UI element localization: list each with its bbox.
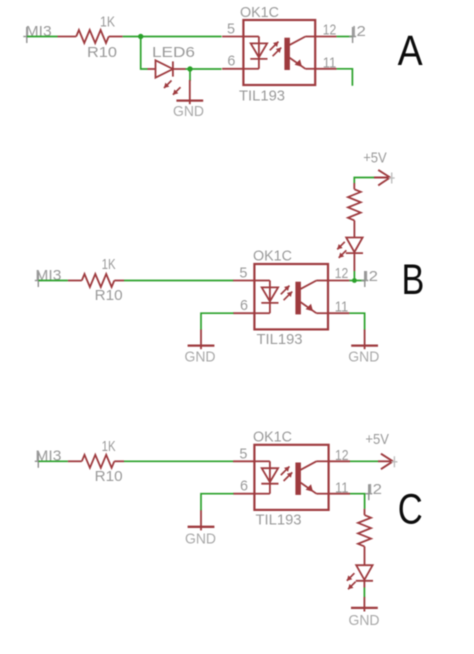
section B: OK1C pin 6 lead bbox=[233, 312, 254, 314]
svg-text:5: 5 bbox=[239, 445, 247, 462]
svg-text:OK1C: OK1C bbox=[240, 4, 279, 21]
section A: OK1C phototransistor bbox=[284, 37, 315, 71]
svg-text:12: 12 bbox=[335, 265, 349, 282]
section C: optocoupler OK1C box bbox=[254, 445, 328, 510]
section B: OK1C internal LED bbox=[254, 281, 278, 314]
section B: OK1C phototransistor bbox=[295, 281, 328, 315]
section A: wire LED6 to pin 6 bbox=[186, 68, 222, 70]
section A: wire R10 to pin 5 bbox=[123, 36, 222, 38]
section B: optocoupler OK1C box bbox=[254, 264, 328, 329]
section A: OK1C pin 6 lead bbox=[222, 68, 243, 70]
svg-text:OK1C: OK1C bbox=[253, 428, 292, 445]
svg-text:5: 5 bbox=[239, 265, 247, 282]
svg-text:LED6: LED6 bbox=[152, 44, 195, 61]
svg-text:11: 11 bbox=[323, 54, 337, 71]
svg-text:6: 6 bbox=[240, 477, 248, 494]
svg-text:1K: 1K bbox=[100, 13, 115, 30]
svg-text:1K: 1K bbox=[102, 256, 116, 273]
svg-text:12: 12 bbox=[335, 447, 349, 464]
svg-text:11: 11 bbox=[335, 298, 349, 315]
section B: LED (pullup) bbox=[346, 238, 363, 254]
section A: net label MI3 bbox=[23, 23, 51, 43]
section C: OK1C pin 11 lead bbox=[329, 493, 350, 495]
section B: OK1C pin 12 lead bbox=[328, 280, 349, 282]
svg-text:GND: GND bbox=[349, 612, 380, 629]
section C: OK1C pin 12 lead bbox=[329, 460, 350, 462]
svg-text:I2: I2 bbox=[368, 481, 382, 498]
svg-text:6: 6 bbox=[227, 53, 235, 70]
section B: wire LED to node I2 bbox=[353, 253, 355, 280]
section C: ground GND (left) bbox=[188, 510, 215, 530]
section C: OK1C internal LED bbox=[254, 461, 278, 493]
section A: wire pin 12 to I2 bbox=[337, 36, 353, 38]
section B: OK1C pin 5 lead bbox=[233, 280, 254, 282]
section C: supply +5V arrow bbox=[378, 454, 397, 470]
section B: wire R10 to pin 5 bbox=[124, 280, 234, 282]
section C: OK1C phototransistor bbox=[295, 461, 328, 495]
section A: junction at LED6 cathode bbox=[187, 66, 192, 71]
svg-text:GND: GND bbox=[173, 103, 204, 120]
section C: OK1C pin 5 lead bbox=[233, 460, 254, 462]
section A: ground GND bbox=[176, 80, 203, 104]
section C: OK1C pin 6 lead bbox=[233, 493, 254, 495]
svg-text:TIL193: TIL193 bbox=[239, 88, 285, 105]
section A: OK1C pin 5 lead bbox=[222, 36, 243, 38]
section B: OK1C pin 11 lead bbox=[328, 312, 349, 314]
section C: resistor R10 bbox=[68, 455, 124, 468]
section B: junction at I2 bbox=[352, 278, 357, 283]
section B: wire pin 11 to GND bbox=[349, 313, 364, 330]
section C: LED emission arrows bbox=[347, 573, 356, 589]
svg-text:C: C bbox=[398, 486, 423, 534]
section B: LED emission arrows bbox=[337, 242, 346, 258]
section A: net label I2 bbox=[349, 23, 366, 43]
section C: wire pin 6 to GND bbox=[201, 494, 234, 511]
section B: wire pin 12 to I2 bbox=[349, 280, 364, 282]
svg-text:+5V: +5V bbox=[365, 431, 389, 448]
section A: wire pin 11 down bbox=[337, 69, 353, 86]
section B: OK1C photon arrows bbox=[281, 286, 292, 301]
section B: resistor R10 bbox=[68, 274, 124, 287]
section B: resistor (pullup) bbox=[348, 183, 361, 238]
svg-text:5: 5 bbox=[227, 21, 235, 38]
svg-text:12: 12 bbox=[323, 21, 337, 38]
section C: resistor (load) bbox=[358, 509, 371, 565]
section A: OK1C pin 12 lead bbox=[315, 36, 336, 38]
section A: OK1C photon arrows bbox=[270, 42, 281, 57]
section C: wire R10 to pin 5 bbox=[124, 460, 234, 462]
svg-text:R10: R10 bbox=[87, 44, 117, 61]
section B: wire pin 6 to GND bbox=[201, 313, 234, 330]
svg-text:+5V: +5V bbox=[363, 149, 387, 166]
svg-text:1K: 1K bbox=[102, 438, 116, 455]
svg-text:B: B bbox=[402, 256, 425, 304]
section B: supply +5V arrow bbox=[374, 170, 395, 186]
section B: ground GND (left) bbox=[188, 330, 215, 350]
section B: ground GND (right) bbox=[351, 330, 378, 350]
section C: net label I2 bbox=[365, 481, 382, 500]
section C: ground GND (right) bbox=[351, 597, 378, 612]
svg-text:R10: R10 bbox=[95, 287, 123, 304]
section A: OK1C pin 11 lead bbox=[315, 68, 336, 70]
section C: wire MI3 to R10 bbox=[39, 460, 68, 462]
section A: wire MI3 to R10 bbox=[27, 36, 58, 38]
section C: LED (load) bbox=[356, 565, 373, 581]
svg-text:A: A bbox=[398, 27, 423, 75]
svg-text:11: 11 bbox=[335, 480, 349, 497]
svg-text:TIL193: TIL193 bbox=[256, 512, 302, 529]
svg-text:I2: I2 bbox=[352, 23, 366, 40]
svg-text:MI3: MI3 bbox=[26, 23, 52, 40]
svg-text:OK1C: OK1C bbox=[253, 248, 292, 265]
section A: wire junction down to GND bbox=[189, 69, 191, 81]
svg-text:TIL193: TIL193 bbox=[257, 331, 303, 348]
section A: OK1C internal LED bbox=[243, 37, 267, 69]
section A: optocoupler OK1C box bbox=[243, 20, 315, 85]
section B: wire +5V corner bbox=[354, 178, 374, 184]
section C: wire pin 12 to +5V bbox=[350, 460, 378, 462]
svg-text:R10: R10 bbox=[95, 468, 123, 485]
section B: wire MI3 to R10 bbox=[39, 280, 68, 282]
section A: wire junction down to LED6 bbox=[141, 37, 148, 70]
svg-text:GND: GND bbox=[185, 531, 216, 548]
svg-text:GND: GND bbox=[348, 349, 379, 366]
section C: OK1C photon arrows bbox=[281, 466, 292, 481]
section A: resistor R10 bbox=[58, 30, 123, 43]
section A: LED LED6 bbox=[148, 60, 186, 77]
svg-text:I2: I2 bbox=[364, 268, 378, 285]
section C: wire pin 11 to LED chain bbox=[350, 494, 365, 509]
svg-text:6: 6 bbox=[240, 297, 248, 314]
section C: wire LED to GND bbox=[363, 581, 365, 598]
section B: net label I2 bbox=[361, 268, 378, 287]
section B: net label MI3 bbox=[35, 267, 62, 287]
section C: net label MI3 bbox=[35, 448, 62, 468]
section A: junction at R10/LED6 bbox=[138, 34, 143, 39]
section A: LED6 emission arrows bbox=[164, 81, 181, 95]
svg-text:GND: GND bbox=[185, 349, 216, 366]
